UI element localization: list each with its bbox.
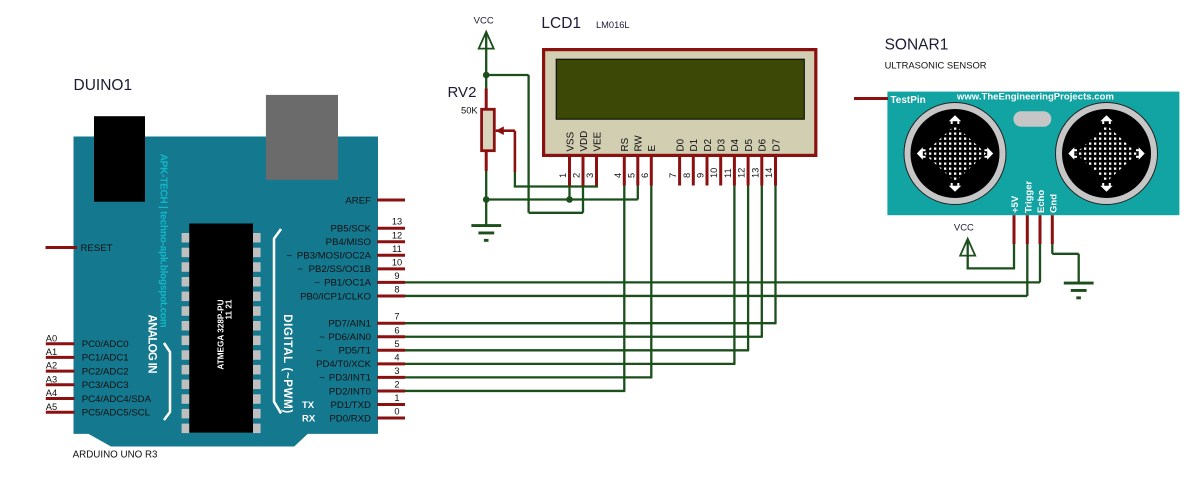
- pin 2 PD2/INT0: [377, 389, 405, 392]
- svg-text:PC4/ADC4/SDA: PC4/ADC4/SDA: [82, 394, 152, 405]
- sonar left transducer: [904, 103, 1006, 205]
- svg-text:9: 9: [394, 271, 399, 281]
- pin A0 PC0/ADC0: [46, 342, 75, 345]
- svg-text:PD7/AIN1: PD7/AIN1: [328, 319, 371, 330]
- pin 1 PD1/TXD: [377, 403, 405, 406]
- junction node ground rail: [483, 196, 490, 203]
- svg-text:A1: A1: [46, 347, 57, 357]
- svg-text:7: 7: [668, 173, 678, 178]
- LCD pin 12 D5: [747, 157, 750, 186]
- pin 3 PD3/INT1: [377, 376, 405, 379]
- svg-text:D1: D1: [689, 139, 700, 152]
- svg-text:~: ~: [319, 332, 325, 343]
- svg-text:5: 5: [626, 173, 636, 178]
- wire arduino PB0/ICP1/CLKO to sonar Trigger: [405, 295, 1027, 297]
- junction node VCC/RV2: [483, 72, 490, 79]
- svg-text:Trigger: Trigger: [1023, 180, 1034, 213]
- wire arduino PB1/OC1A to sonar Echo: [405, 281, 1040, 283]
- pin 8 PB0/ICP1/CLKO: [377, 294, 405, 297]
- wire wiper to LCD VEE: [514, 185, 598, 187]
- svg-text:11 21: 11 21: [224, 299, 233, 319]
- pin A4 PC4/ADC4/SDA: [46, 397, 75, 400]
- pin AREF: [377, 199, 405, 202]
- pin 9 PB1/OC1A: [377, 281, 405, 284]
- sonar pin Gnd: [1051, 215, 1054, 244]
- sonar center pill: [1013, 111, 1051, 127]
- svg-text:VCC: VCC: [954, 223, 974, 234]
- svg-text:TX: TX: [302, 400, 315, 411]
- wire LCD D7 to arduino PD7/AIN1: [774, 186, 776, 324]
- pin 10 PB2/SS/OC1B: [377, 267, 405, 270]
- svg-text:VCC: VCC: [474, 16, 494, 27]
- svg-text:RV2: RV2: [448, 84, 477, 101]
- IC pin stubs: [182, 233, 261, 433]
- svg-text:4: 4: [613, 173, 623, 178]
- svg-text:AREF: AREF: [345, 195, 371, 206]
- svg-text:3: 3: [394, 366, 399, 376]
- svg-text:RESET: RESET: [81, 243, 113, 254]
- resistor RV2 body: [482, 109, 495, 150]
- svg-text:6: 6: [640, 173, 650, 178]
- svg-text:PB0/ICP1/CLKO: PB0/ICP1/CLKO: [300, 291, 371, 302]
- wire ground rail to LCD RW: [486, 198, 638, 200]
- svg-text:LM016L: LM016L: [596, 20, 630, 30]
- LCD pin 8 D1: [692, 157, 695, 186]
- pin 11 PB3/MOSI/OC2A: [377, 254, 405, 257]
- svg-text:PD0/RXD: PD0/RXD: [329, 413, 371, 424]
- svg-text:ULTRASONIC SENSOR: ULTRASONIC SENSOR: [885, 60, 987, 71]
- svg-text:PB4/MISO: PB4/MISO: [326, 237, 371, 248]
- wire LCD RW down to ground rail: [637, 186, 639, 200]
- svg-text:E: E: [647, 145, 658, 152]
- pin 13 PB5/SCK: [377, 227, 405, 230]
- svg-text:A3: A3: [46, 374, 57, 384]
- ground (left): [471, 224, 501, 242]
- IC ATMEGA328P-PU body: [189, 224, 253, 433]
- sonar pin +5V: [1013, 215, 1016, 244]
- svg-text:1: 1: [558, 173, 568, 178]
- junction node VSS/ground rail: [566, 196, 573, 203]
- svg-text:11: 11: [723, 168, 733, 178]
- svg-text:10: 10: [392, 257, 402, 267]
- svg-text:DIGITAL (~PWM): DIGITAL (~PWM): [281, 314, 293, 413]
- svg-text:3: 3: [585, 173, 595, 178]
- svg-text:13: 13: [750, 168, 760, 178]
- pin 7 PD7/AIN1: [377, 322, 405, 325]
- sonar pin Echo: [1039, 215, 1042, 244]
- wire VCC to RV2 top (red stub): [485, 89, 488, 111]
- pin A1 PC1/ADC1: [46, 356, 75, 359]
- svg-text:2: 2: [572, 173, 582, 178]
- svg-text:PC5/ADC5/SCL: PC5/ADC5/SCL: [82, 408, 151, 419]
- RV2 wiper arrow: [496, 129, 515, 132]
- svg-text:2: 2: [394, 379, 399, 389]
- pin RESET: [46, 246, 78, 249]
- wire LCD RS to arduino PD2/INT0: [623, 186, 625, 391]
- svg-text:DUINO1: DUINO1: [74, 77, 133, 94]
- svg-text:VSS: VSS: [565, 131, 576, 151]
- svg-text:PB3/MOSI/OC2A: PB3/MOSI/OC2A: [297, 251, 372, 262]
- svg-text:PD3/INT1: PD3/INT1: [329, 373, 371, 384]
- LCD pin 14 D7: [774, 157, 777, 186]
- svg-text:PC3/ADC3: PC3/ADC3: [82, 380, 129, 391]
- pin 4 PD4/T0/XCK: [377, 362, 405, 365]
- pin A5 PC5/ADC5/SCL: [46, 411, 75, 414]
- pin 5 PD5/T1: [377, 349, 405, 352]
- pin 0 PD0/RXD: [377, 417, 405, 420]
- svg-text:A2: A2: [46, 361, 57, 371]
- svg-text:10: 10: [709, 168, 719, 178]
- LCD pin 7 D0: [678, 157, 681, 186]
- wire sonar Gnd to ground: [1051, 244, 1053, 254]
- svg-text:14: 14: [764, 168, 774, 178]
- svg-text:~: ~: [286, 251, 292, 262]
- svg-text:8: 8: [394, 284, 399, 294]
- svg-text:13: 13: [392, 217, 402, 227]
- svg-text:A4: A4: [46, 388, 57, 398]
- svg-text:A0: A0: [46, 333, 57, 343]
- svg-text:4: 4: [394, 352, 399, 362]
- svg-text:9: 9: [696, 173, 706, 178]
- LCD pin 11 D4: [733, 157, 736, 186]
- svg-text:PC1/ADC1: PC1/ADC1: [82, 353, 129, 364]
- pin A3 PC3/ADC3: [46, 383, 75, 386]
- svg-text:5: 5: [394, 339, 399, 349]
- svg-text:RS: RS: [620, 137, 631, 151]
- svg-text:PB5/SCK: PB5/SCK: [330, 224, 371, 235]
- pin 6 PD6/AIN0: [377, 335, 405, 338]
- svg-text:D0: D0: [675, 138, 686, 151]
- svg-text:+5V: +5V: [1010, 195, 1021, 213]
- LCD pin 10 D3: [719, 157, 722, 186]
- svg-text:D4: D4: [730, 138, 741, 151]
- wire sonar +5V to VCC: [1013, 244, 1015, 269]
- LCD screen: [556, 59, 804, 119]
- svg-text:7: 7: [394, 312, 399, 322]
- ground (sonar): [1064, 282, 1094, 300]
- svg-text:PD5/T1: PD5/T1: [338, 346, 371, 357]
- wire LCD VSS down to ground rail: [568, 186, 570, 200]
- wire VCC to LCD VDD: [486, 74, 528, 76]
- sonar SONAR1 board body: [887, 92, 1179, 216]
- svg-text:APK-TECH | techno-apk.blogspot: APK-TECH | techno-apk.blogspot.com: [158, 154, 169, 328]
- svg-text:~: ~: [314, 278, 320, 289]
- svg-text:PD6/AIN0: PD6/AIN0: [328, 332, 371, 343]
- LCD pin 3 VEE: [595, 157, 598, 186]
- svg-text:50K: 50K: [461, 104, 478, 115]
- pin 12 PB4/MISO: [377, 240, 405, 243]
- svg-text:12: 12: [392, 230, 402, 240]
- svg-text:1: 1: [394, 393, 399, 403]
- svg-text:RX: RX: [302, 413, 316, 424]
- LCD pin 2 VDD: [582, 157, 585, 186]
- analog pins bracket: [164, 343, 170, 420]
- svg-text:RW: RW: [634, 135, 645, 152]
- svg-text:SONAR1: SONAR1: [885, 37, 949, 54]
- svg-text:ANALOG IN: ANALOG IN: [146, 315, 158, 374]
- svg-text:6: 6: [394, 325, 399, 335]
- wire LCD D4 to arduino PD4/T0/XCK: [733, 186, 735, 364]
- svg-text:12: 12: [737, 168, 747, 178]
- svg-text:D7: D7: [771, 139, 782, 152]
- LCD pin 5 RW: [636, 157, 639, 186]
- sonar pin Trigger: [1026, 215, 1029, 244]
- svg-text:0: 0: [394, 407, 399, 417]
- svg-text:D2: D2: [703, 139, 714, 152]
- svg-text:8: 8: [682, 173, 692, 178]
- svg-text:~: ~: [297, 264, 303, 275]
- wire RV2 to ground: [485, 171, 487, 226]
- svg-text:PD2/INT0: PD2/INT0: [329, 386, 371, 397]
- svg-text:ARDUINO UNO R3: ARDUINO UNO R3: [73, 450, 158, 461]
- LCD pin 1 VSS: [568, 157, 571, 186]
- svg-text:ATMEGA 328P-PU: ATMEGA 328P-PU: [216, 299, 225, 369]
- svg-text:D5: D5: [744, 138, 755, 151]
- svg-text:Gnd: Gnd: [1048, 194, 1059, 213]
- wire LCD D6 to arduino PD6/AIN0: [761, 186, 763, 337]
- svg-text:TestPin: TestPin: [890, 95, 925, 106]
- svg-text:D3: D3: [717, 138, 728, 151]
- svg-text:11: 11: [392, 244, 402, 254]
- LCD pin 4 RS: [623, 157, 626, 186]
- power jack connector: [266, 95, 338, 180]
- LCD pin 9 D2: [706, 157, 709, 186]
- USB connector: [94, 116, 145, 202]
- LCD LCD1 LM016L body: [544, 50, 816, 156]
- LCD pin 13 D6: [760, 157, 763, 186]
- svg-text:PC2/ADC2: PC2/ADC2: [82, 366, 129, 377]
- arduino DUINO1 board body: [74, 137, 379, 447]
- svg-text:VEE: VEE: [592, 131, 603, 151]
- digital pins bracket: [274, 229, 281, 413]
- sonar right transducer: [1056, 103, 1158, 205]
- LCD pin 6 E: [650, 157, 653, 186]
- svg-text:A5: A5: [46, 402, 57, 412]
- svg-text:~: ~: [319, 373, 325, 384]
- pin A2 PC2/ADC2: [46, 370, 75, 373]
- svg-text:PB1/OC1A: PB1/OC1A: [324, 278, 372, 289]
- svg-text:PD4/T0/XCK: PD4/T0/XCK: [316, 359, 372, 370]
- svg-text:PD1/TXD: PD1/TXD: [330, 400, 371, 411]
- svg-text:www.TheEngineeringProjects.com: www.TheEngineeringProjects.com: [956, 92, 1114, 103]
- svg-text:D6: D6: [758, 138, 769, 151]
- svg-text:PB2/SS/OC1B: PB2/SS/OC1B: [309, 264, 371, 275]
- wire RV2 wiper down: [514, 131, 517, 172]
- svg-text:~: ~: [316, 346, 322, 357]
- wire LCD E to arduino PD3/INT1: [650, 186, 652, 378]
- wire LCD VDD down: [582, 186, 584, 213]
- sonar TestPin pin: [854, 97, 888, 100]
- svg-text:Echo: Echo: [1036, 190, 1047, 213]
- wire LCD D5 to arduino PD5/T1: [747, 186, 749, 351]
- svg-text:PC0/ADC0: PC0/ADC0: [82, 339, 129, 350]
- wire RV2 bottom (red stub): [485, 150, 488, 171]
- svg-text:LCD1: LCD1: [541, 15, 581, 32]
- svg-text:VDD: VDD: [579, 131, 590, 152]
